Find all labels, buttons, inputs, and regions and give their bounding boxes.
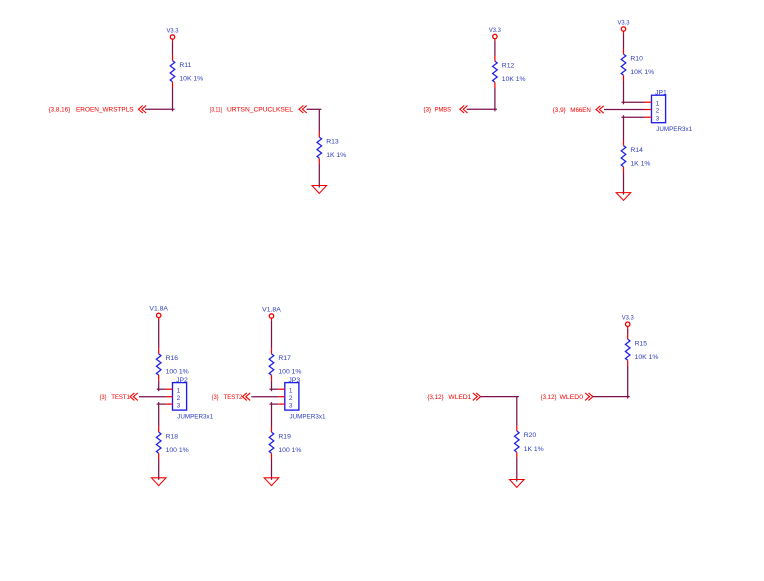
svg-text:JUMPER3x1: JUMPER3x1 [290, 413, 326, 420]
ground (R19) [264, 478, 279, 486]
net label {3} TEST1 [100, 394, 130, 401]
wire R11 to node EROEN_WRSTPLS [172, 88, 174, 112]
wire V3.3 to R12 [494, 41, 496, 55]
svg-text:{3}: {3} [100, 394, 107, 401]
svg-text:V3.3: V3.3 [618, 19, 631, 26]
off-page connector TEST2 [242, 393, 250, 401]
wire node WLED1 down to R20 [516, 397, 518, 426]
svg-text:JUMPER3x1: JUMPER3x1 [177, 413, 213, 420]
wire TEST2 to JP3 pin 2 [251, 396, 278, 398]
resistor R11 [170, 55, 175, 88]
svg-text:1: 1 [177, 387, 181, 394]
svg-text:JUMPER3x1: JUMPER3x1 [656, 126, 692, 133]
svg-text:JP2: JP2 [176, 377, 188, 384]
svg-text:10K 1%: 10K 1% [179, 75, 203, 82]
svg-text:{3}: {3} [212, 394, 219, 401]
resistor R12 [493, 56, 498, 89]
power symbol V1.8A (net of R16) [149, 306, 169, 320]
wire V3.3 to R10 [623, 34, 625, 49]
wire V1.8A to R16 [158, 320, 160, 348]
off-page connector EROEN_WRSTPLS [138, 106, 146, 114]
svg-text:1K 1%: 1K 1% [524, 446, 544, 453]
svg-text:100 1%: 100 1% [278, 447, 301, 454]
resistor R13 [317, 132, 322, 165]
jumper JP2 (JUMPER3x1) [166, 377, 214, 421]
resistor R15 [625, 334, 630, 367]
net label {3} PMBS [423, 107, 451, 114]
wire JP2 pin 3 horizontal [157, 403, 166, 405]
svg-text:1: 1 [289, 387, 293, 394]
svg-text:R19: R19 [278, 433, 291, 440]
wire V1.8A to R17 [271, 321, 273, 349]
svg-text:R17: R17 [278, 355, 291, 362]
wire node WLED0 up to R15 [627, 366, 629, 397]
svg-text:V3.3: V3.3 [167, 27, 180, 34]
svg-text:R16: R16 [166, 355, 179, 362]
ground (R13) [312, 186, 327, 194]
wire JP1 pin 1 horizontal [622, 101, 645, 103]
svg-text:WLED0: WLED0 [560, 394, 584, 401]
wire R20 to ground [516, 458, 518, 482]
off-page connector WLED1 [473, 393, 481, 401]
wire R17 down to JP3 pin 1 [271, 381, 273, 391]
svg-text:100 1%: 100 1% [166, 447, 189, 454]
svg-text:URTSN_CPUCLKSEL: URTSN_CPUCLKSEL [227, 107, 293, 114]
svg-text:TEST1: TEST1 [111, 394, 130, 401]
off-page connector WLED0 [585, 393, 593, 401]
svg-text:2: 2 [289, 395, 293, 402]
svg-text:3: 3 [177, 402, 181, 409]
wire node EROEN_WRSTPLS horizontal [145, 108, 175, 110]
svg-text:2: 2 [656, 108, 660, 115]
wire R16 down to JP2 pin 1 [158, 381, 160, 391]
svg-text:3: 3 [289, 402, 293, 409]
svg-text:R20: R20 [524, 432, 537, 439]
svg-text:1: 1 [656, 100, 660, 107]
svg-text:R13: R13 [326, 138, 339, 145]
svg-text:10K 1%: 10K 1% [502, 76, 526, 83]
svg-text:1K 1%: 1K 1% [630, 160, 650, 167]
svg-text:JP1: JP1 [655, 89, 667, 96]
resistor R20 [515, 425, 520, 458]
svg-text:WLED1: WLED1 [448, 394, 471, 401]
wire JP1 pin 3 horizontal [622, 116, 645, 118]
ground (R14) [616, 193, 631, 201]
svg-text:V3.3: V3.3 [622, 315, 635, 322]
svg-text:{3,12}: {3,12} [427, 394, 444, 401]
off-page connector PMBS [460, 106, 468, 114]
svg-text:10K 1%: 10K 1% [635, 354, 659, 361]
svg-text:{3,9}: {3,9} [553, 107, 567, 114]
wire JP2 pin 1 horizontal [157, 388, 166, 390]
resistor R17 [269, 348, 274, 381]
net label {3,12} WLED1 [427, 394, 471, 401]
power symbol V3.3 (net of R10) [618, 19, 631, 33]
resistor R16 [156, 348, 161, 381]
net label {3,12} WLED0 [541, 394, 583, 401]
svg-text:R10: R10 [630, 55, 643, 62]
svg-text:{3,11}: {3,11} [210, 107, 223, 114]
ground (R18) [151, 478, 166, 486]
resistor R19 [269, 427, 274, 460]
svg-text:JP3: JP3 [288, 377, 300, 384]
svg-text:1K 1%: 1K 1% [326, 152, 346, 159]
wire JP1 pin 3 down to R14 [623, 115, 625, 140]
svg-text:R15: R15 [635, 340, 648, 347]
off-page connector URTSN_CPUCLKSEL [299, 106, 307, 114]
wire R19 to ground [271, 459, 273, 480]
power symbol V3.3 (net of R11) [167, 27, 180, 41]
wire R18 to ground [158, 459, 160, 480]
svg-text:{3,12}: {3,12} [541, 394, 557, 401]
power symbol V3.3 (net of R15) [622, 315, 635, 329]
wire JP3 pin 3 horizontal [270, 403, 279, 405]
svg-text:R12: R12 [502, 62, 515, 69]
power symbol V1.8A (net of R17) [262, 306, 282, 320]
power symbol V3.3 (net of R12) [489, 27, 502, 41]
wire R13 to ground [318, 164, 320, 188]
svg-text:100 1%: 100 1% [278, 369, 301, 376]
wire R12 to node PMBS [494, 88, 496, 111]
wire node PMBS horizontal [467, 108, 497, 110]
wire TEST1 to JP2 pin 2 [139, 396, 166, 398]
wire URTSN_CPUCLKSEL horizontal [307, 108, 322, 110]
svg-text:R18: R18 [166, 433, 179, 440]
wire JP3 pin 1 horizontal [270, 388, 279, 390]
svg-text:3: 3 [656, 115, 660, 122]
net label {3,9} M66EN [553, 107, 591, 114]
wire node to R13 [318, 109, 320, 131]
off-page connector M66EN [596, 106, 604, 113]
net label {3,8,16} EROEN_WRSTPLS [49, 107, 134, 114]
net label {3} TEST2 [212, 394, 243, 401]
svg-text:100 1%: 100 1% [166, 369, 189, 376]
jumper JP3 (JUMPER3x1) [278, 377, 326, 421]
wire JP3 pin 3 down to R19 [271, 402, 273, 426]
resistor R10 [621, 49, 626, 82]
wire R10 down to JP1 pin 1 [623, 81, 625, 104]
svg-text:M66EN: M66EN [570, 107, 591, 114]
svg-text:2: 2 [177, 395, 181, 402]
svg-text:V1.8A: V1.8A [262, 306, 282, 313]
svg-text:TEST2: TEST2 [224, 394, 243, 401]
svg-text:PMBS: PMBS [435, 107, 452, 114]
net label {3,11} URTSN_CPUCLKSEL [210, 107, 293, 114]
resistor R18 [156, 427, 161, 460]
svg-text:R11: R11 [179, 62, 191, 69]
wire R15 to V3.3 [627, 329, 629, 334]
svg-text:{3,8,16}: {3,8,16} [49, 107, 71, 114]
svg-text:V1.8A: V1.8A [149, 306, 169, 313]
wire V3.3 to R11 [172, 42, 174, 55]
wire M66EN to JP1 pin 2 [604, 109, 645, 111]
wire WLED0 horizontal [593, 396, 630, 398]
wire JP2 pin 3 down to R18 [158, 402, 160, 426]
off-page connector TEST1 [130, 393, 138, 401]
resistor R14 [621, 140, 626, 173]
svg-text:V3.3: V3.3 [489, 27, 502, 34]
wire R14 to ground [623, 173, 625, 195]
jumper JP1 (JUMPER3x1) [645, 89, 693, 132]
svg-text:10K 1%: 10K 1% [630, 69, 654, 76]
svg-text:R14: R14 [630, 147, 643, 154]
wire WLED1 horizontal [481, 396, 519, 398]
wire node WLED0 end stub [627, 397, 629, 399]
svg-text:EROEN_WRSTPLS: EROEN_WRSTPLS [76, 107, 134, 114]
svg-text:{3}: {3} [423, 107, 431, 114]
ground (R20) [510, 480, 525, 488]
